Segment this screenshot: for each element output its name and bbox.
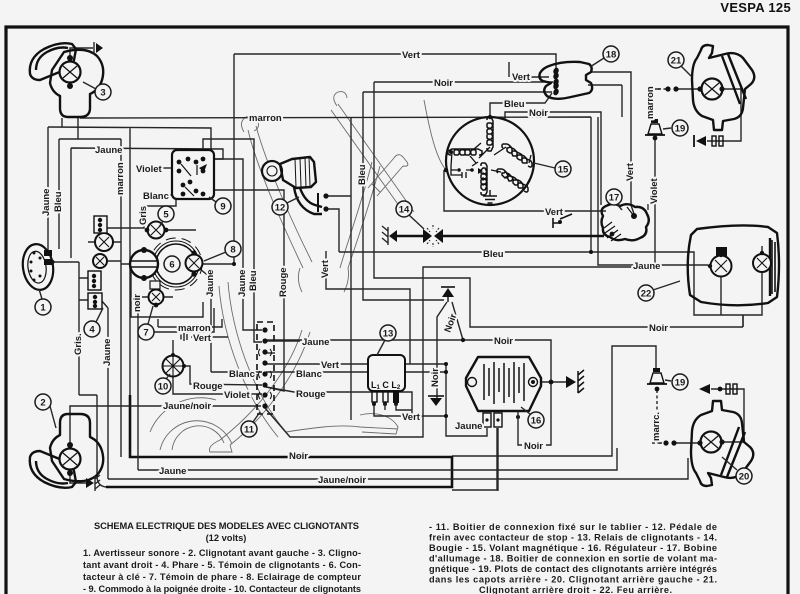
svg-text:10: 10: [158, 382, 169, 393]
badge 4: [84, 308, 103, 337]
svg-text:- 11. Boitier de connexion fix: - 11. Boitier de connexion fixé sur le t…: [429, 522, 717, 532]
wire: Vert top y54 from x234: [202, 54, 556, 264]
right lower coil: [497, 169, 528, 192]
scooter steering column: [331, 104, 414, 217]
svg-text:marron: marron: [645, 86, 656, 119]
svg-text:8: 8: [230, 245, 235, 256]
svg-text:21: 21: [671, 56, 682, 67]
svg-text:Jaune: Jaune: [102, 339, 113, 366]
relais 13 (relais de clignotants): [368, 355, 412, 410]
badge 7: [138, 306, 154, 340]
wire: headlight cluster links: [79, 230, 196, 356]
badge 11: [241, 412, 260, 437]
svg-text:3: 3: [100, 88, 105, 99]
scooter right lever: [340, 162, 372, 268]
badge 19a: [663, 120, 688, 136]
wire: Vert y211 flywheel to coil: [444, 170, 606, 211]
wire: Vert y416 from relais: [374, 404, 446, 416]
badge 17: [606, 189, 622, 210]
badge 22: [638, 281, 680, 301]
scooter headset detail: [298, 268, 348, 292]
speedometer lamp 8: [186, 250, 203, 276]
svg-text:18: 18: [606, 50, 617, 61]
svg-text:gnétique - 19. Plots de contac: gnétique - 19. Plots de contact des clig…: [429, 564, 717, 574]
commodo 9 (right grip switch): [172, 150, 214, 199]
svg-text:17: 17: [609, 193, 620, 204]
svg-text:Gris: Gris: [138, 206, 149, 225]
wire: dashes left of signal20 dots: [652, 442, 661, 444]
wire: taillight inner bracket: [721, 246, 762, 327]
wire: brake top contact x351: [327, 117, 351, 420]
svg-text:5: 5: [163, 210, 169, 221]
svg-text:12: 12: [275, 203, 286, 214]
wire: y92 run to box18 lower: [363, 92, 552, 300]
svg-text:1: 1: [40, 303, 46, 314]
svg-text:Rouge: Rouge: [278, 267, 289, 297]
top coil: [487, 117, 493, 151]
badge 2: [35, 394, 56, 428]
wire: Jaune vertical x211 to Blanc box row: [200, 269, 262, 372]
badge 13: [377, 325, 396, 355]
wire: marrc dashes cone19b: [657, 390, 664, 443]
wire: signal3 ground lead: [70, 48, 93, 56]
svg-text:frein avec contacteur de stop: frein avec contacteur de stop - 13. Rela…: [429, 533, 717, 543]
wire: commodo to Rouge vertical x284: [214, 190, 284, 391]
badge 15: [534, 161, 571, 177]
scooter body edge: [228, 282, 286, 432]
scooter fork: [209, 330, 310, 452]
svg-text:Jaune/noir: Jaune/noir: [318, 475, 366, 486]
badge 20: [722, 457, 752, 484]
badge 16: [521, 407, 544, 428]
badge 12: [272, 197, 299, 215]
wire: Gris left links: [107, 199, 176, 228]
tail light 22 (feu arriere): [688, 225, 779, 305]
svg-text:marron: marron: [249, 113, 282, 124]
svg-text:tant avant droit - 4. Phare -: tant avant droit - 4. Phare - 5. Témoin …: [83, 560, 361, 570]
svg-text:d'allumage - 18. Boitier de co: d'allumage - 18. Boitier de connexion en…: [429, 554, 717, 564]
svg-text:noir: noir: [132, 294, 143, 312]
scooter column top curl: [334, 92, 347, 106]
wire: Noir y112 from flywheel: [505, 112, 601, 205]
wire: commodo to Bleu vertical x254: [203, 139, 262, 342]
wire: cluster loop 2: [146, 308, 214, 332]
svg-text:Violet: Violet: [649, 177, 660, 204]
scooter grip end: [241, 116, 258, 132]
wire: Vert bracket at box18: [509, 62, 549, 77]
wire: regulator plug2 drop: [497, 428, 499, 491]
svg-text:Jaune: Jaune: [237, 270, 248, 297]
terminal strip C: [88, 293, 102, 309]
wire: thick ground run: [106, 395, 452, 487]
wire: top-left run y127: [48, 118, 211, 395]
svg-text:Noir: Noir: [529, 108, 548, 119]
wire: Noir long y455 to cone 19b: [121, 139, 656, 457]
wire: Vert key chain: [266, 251, 487, 436]
pilot lamp (left upper): [95, 233, 113, 251]
wire: Noir bracket under regulator: [518, 422, 551, 445]
badge 3: [83, 82, 111, 100]
junction box 11: [257, 322, 274, 414]
wire: Blanc to commodo: [165, 194, 174, 196]
contact breaker + condenser: [451, 162, 478, 178]
scooter throttle tube: [368, 155, 408, 196]
scooter mudguard: [150, 398, 216, 432]
svg-text:13: 13: [383, 329, 394, 340]
svg-text:Clignotant arrière droit - 22.: Clignotant arrière droit - 22. Feu arriè…: [479, 585, 672, 594]
svg-text:19: 19: [675, 378, 686, 389]
wire: Noir y82 to box18: [374, 82, 743, 327]
ignition coil 17 (bobine): [553, 204, 649, 241]
svg-text:20: 20: [739, 472, 750, 483]
wire: cluster U loop: [131, 262, 203, 317]
bottom coil: [481, 163, 487, 195]
svg-text:Vert: Vert: [512, 72, 531, 83]
legend right column: [429, 522, 717, 594]
svg-text:Jaune: Jaune: [41, 189, 52, 216]
connection box 18: [539, 62, 592, 99]
svg-text:Vert: Vert: [321, 360, 340, 371]
svg-text:15: 15: [558, 165, 569, 176]
turn signal 20 (rear left): [663, 384, 753, 486]
wire: box18 lower out: [588, 84, 622, 86]
svg-text:Bleu: Bleu: [53, 191, 64, 212]
wire: Violet-left into box: [173, 377, 262, 394]
pilot lamp 5 (temoin clignotants): [145, 222, 169, 239]
svg-text:Rouge: Rouge: [193, 381, 223, 392]
svg-text:14: 14: [399, 205, 410, 216]
svg-text:Jaune: Jaune: [633, 261, 660, 272]
svg-text:Vert: Vert: [193, 333, 212, 344]
wire: Jaune-noir long y479: [101, 300, 688, 479]
svg-text:Noir: Noir: [430, 368, 441, 387]
terminal strip A: [94, 216, 107, 233]
wire: commodo to Jaune vertical x243: [214, 159, 262, 330]
badge 1: [35, 289, 51, 315]
wire: Bleu label vertical x363: [266, 352, 275, 354]
svg-text:6: 6: [169, 260, 174, 271]
svg-text:Noir: Noir: [434, 78, 453, 89]
wire: y491 to regulator plug: [52, 262, 497, 490]
svg-text:Jaune/noir: Jaune/noir: [163, 401, 211, 412]
svg-text:2: 2: [40, 398, 45, 409]
svg-text:Vert: Vert: [625, 162, 636, 181]
svg-text:- 9. Commodo à la poignée droi: - 9. Commodo à la poignée droite - 10. C…: [83, 584, 361, 594]
svg-text:dans les capots arrière - 20.: dans les capots arrière - 20. Clignotant…: [429, 575, 717, 585]
svg-text:Jaune: Jaune: [95, 145, 122, 156]
headlamp pilot 7: [149, 281, 164, 307]
cone contact 19a: [645, 119, 665, 135]
svg-text:4: 4: [89, 325, 95, 336]
wire: marron dashes to cone19a: [650, 89, 652, 121]
svg-text:Bleu: Bleu: [357, 164, 368, 185]
svg-text:1. Avertisseur sonore - 2. Cli: 1. Avertisseur sonore - 2. Clignotant av…: [83, 548, 361, 558]
svg-text:11: 11: [244, 425, 255, 436]
svg-text:Vert: Vert: [402, 412, 421, 423]
svg-text:Bleu: Bleu: [483, 249, 504, 260]
flywheel magneto 15: [444, 115, 534, 205]
svg-text:Vert: Vert: [402, 50, 421, 61]
wire: Vert short y337: [181, 333, 228, 341]
scooter handlebar left curve: [248, 130, 303, 268]
wire: Jaune vertical x48 to horn: [47, 127, 49, 250]
headlight assembly: key switch ring 6: [156, 244, 196, 284]
svg-text:Jaune: Jaune: [455, 421, 482, 432]
wire: diag to Noir ground: [437, 302, 447, 398]
terminal strip B: [88, 271, 101, 290]
scooter front wheel: [160, 421, 232, 450]
svg-text:Violet: Violet: [224, 390, 251, 401]
badge 19b: [665, 374, 688, 390]
svg-text:Jaune: Jaune: [159, 466, 186, 477]
svg-text:Bleu: Bleu: [248, 270, 259, 291]
brake pedal 12 with stop switch: [262, 157, 329, 214]
wire: Blanc-right y372: [266, 371, 446, 373]
horn 1 (avertisseur sonore): [20, 242, 56, 292]
badge 9: [209, 197, 231, 214]
cone contact 19b: [647, 368, 667, 384]
svg-text:7: 7: [143, 328, 148, 339]
svg-text:Rouge: Rouge: [296, 389, 326, 400]
svg-text:Jaune: Jaune: [205, 270, 216, 297]
svg-text:19: 19: [675, 124, 686, 135]
scooter cable to flywheel: [424, 100, 446, 170]
svg-text:Noir: Noir: [494, 336, 513, 347]
svg-text:Noir: Noir: [524, 441, 543, 452]
turn signal 21 (rear right): [665, 45, 754, 147]
wire: dashes left of signal21 dots: [658, 88, 666, 90]
svg-text:SCHEMA ELECTRIQUE DES MODELES: SCHEMA ELECTRIQUE DES MODELES AVEC CLIGN…: [94, 521, 359, 531]
svg-text:9: 9: [220, 202, 225, 213]
bougie 14 (spark plug): [382, 225, 450, 247]
headlight main bulb 4: [130, 247, 158, 281]
junction dots: [461, 338, 465, 342]
ground below Noir vertical: [428, 396, 444, 406]
wire: Jaune long y470: [138, 297, 617, 470]
wire: Rouge-left into box: [184, 366, 262, 385]
svg-text:Vert: Vert: [320, 259, 331, 278]
left coil: [448, 149, 482, 155]
svg-text:Jaune: Jaune: [302, 337, 329, 348]
svg-text:Bougie - 15. Volant magnétique: Bougie - 15. Volant magnétique - 16. Rég…: [429, 543, 717, 553]
wire: signal2 lamp leads: [70, 418, 86, 483]
badge 14: [396, 201, 424, 229]
wire: Violet chain to cone 19: [265, 138, 655, 437]
svg-text:(12 volts): (12 volts): [206, 533, 247, 543]
wire: marron long y117: [80, 85, 708, 265]
badge 8: [204, 241, 241, 261]
badge 5: [158, 206, 174, 227]
badge 18: [590, 46, 619, 67]
badge 6: [164, 256, 180, 272]
wire: regulator right output: [540, 381, 566, 383]
wire: diag to junction and Noir y340: [266, 302, 551, 438]
svg-text:Blanc: Blanc: [229, 369, 255, 380]
badge 21: [668, 52, 691, 76]
svg-text:Bleu: Bleu: [504, 99, 525, 110]
svg-text:VESPA 125: VESPA 125: [720, 0, 791, 15]
svg-text:Gris.: Gris.: [73, 333, 84, 355]
wire: Jaune y341 from box: [266, 340, 300, 342]
internal ground: [483, 190, 497, 203]
svg-text:marrc.: marrc.: [651, 412, 662, 441]
svg-text:Blanc: Blanc: [296, 369, 322, 380]
turn signal 2 (front left): [30, 414, 103, 491]
legend left column: [83, 548, 361, 594]
svg-text:16: 16: [531, 416, 542, 427]
wire: marron short y327: [158, 319, 222, 327]
wire: Bleu into flywheel: [490, 93, 552, 120]
svg-text:L1 C L2: L1 C L2: [371, 380, 401, 391]
wire: Violet to commodo: [160, 167, 174, 169]
svg-text:marron: marron: [115, 162, 126, 195]
wire: top-left run y139: [59, 118, 121, 139]
wire: Bleu vertical x59 to horn: [58, 139, 60, 249]
right upper coil: [502, 144, 532, 167]
wire: signal20 leads: [676, 389, 744, 443]
scooter floor and shoe: [286, 414, 398, 434]
turn signal 3 (front right): [30, 42, 103, 117]
svg-text:Vert: Vert: [545, 207, 564, 218]
turn signal switch 10 (contacteur de clignotants): [163, 353, 187, 377]
svg-text:tacteur à clé - 7. Témoin de p: tacteur à clé - 7. Témoin de phare - 8. …: [83, 572, 361, 582]
svg-text:Violet: Violet: [136, 164, 163, 175]
badge 10: [155, 374, 171, 394]
svg-text:22: 22: [641, 289, 652, 300]
wire: Jaune-noir commodo y406: [70, 406, 261, 418]
svg-text:Noir: Noir: [649, 323, 668, 334]
right arrow ground: [566, 376, 576, 388]
wire: Jaune y148 to commodo: [71, 148, 223, 258]
wire: signal21 leads: [651, 89, 741, 141]
svg-text:Blanc: Blanc: [143, 191, 169, 202]
pilot lamp (left lower): [93, 254, 107, 268]
regulator 16: [466, 357, 584, 427]
wire: Bleu stop y252: [327, 209, 721, 315]
wire: Rouge-right y392: [266, 387, 412, 416]
up arrow chassis symbol: [441, 287, 455, 302]
wire: box18 out Vert vertical x631: [590, 72, 634, 214]
wire: jaune dash to plug: [478, 424, 483, 426]
svg-text:Noir: Noir: [289, 451, 308, 462]
wire: bougie thick leads: [396, 235, 604, 238]
